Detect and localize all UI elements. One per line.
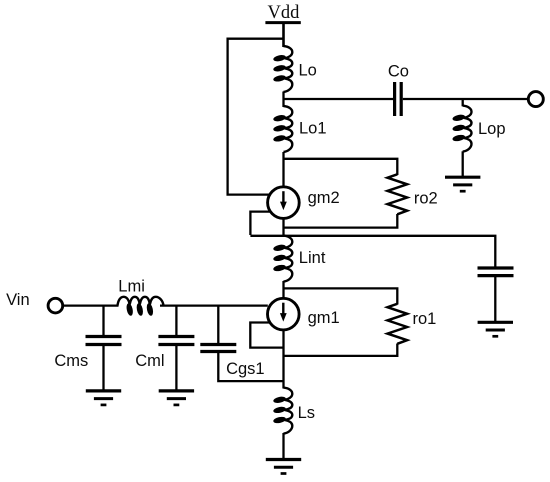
wire gm2 to Lint [282, 219, 284, 237]
input terminal Vin [48, 298, 63, 313]
wire Co to output terminal [403, 98, 529, 100]
wire Lint to gm1 [282, 281, 284, 299]
ground at Cml [159, 391, 194, 405]
svg-text:gm2: gm2 [308, 189, 340, 207]
wire gm1 top rail to ro1 [284, 288, 398, 304]
ground at Lop [445, 177, 480, 191]
power symbol Vdd bar [265, 21, 300, 24]
resistor ro1 [388, 304, 408, 344]
inductor Lo [273, 46, 293, 92]
wire ro2 bottom rail [284, 214, 398, 228]
wire node to Cml [175, 306, 177, 335]
svg-text:Cgs1: Cgs1 [226, 360, 265, 378]
wire right capacitor to ground [494, 277, 496, 321]
svg-text:ro2: ro2 [414, 189, 438, 207]
svg-text:Lop: Lop [478, 120, 506, 138]
wire Ls to ground [282, 433, 284, 459]
wire input rail Lmi to gm1 [160, 304, 268, 306]
wire Lo to Lo1 [282, 92, 284, 108]
capacitor Cms [86, 337, 122, 345]
current source gm1 [268, 298, 300, 330]
current source gm2 [268, 187, 300, 219]
ground at Cms [86, 391, 121, 405]
wire node to Cms [102, 306, 104, 335]
wire Lo1 to gm2 [282, 152, 284, 187]
svg-text:Vin: Vin [6, 291, 30, 309]
wire ro1 bottom rail [284, 344, 398, 356]
svg-text:Co: Co [388, 62, 409, 80]
wire Lop to ground [462, 151, 464, 176]
wire gm2 top rail to ro2 [284, 159, 398, 175]
svg-text:Lo: Lo [299, 62, 317, 80]
inductor Lop [452, 106, 472, 152]
inductor Lmi [118, 297, 164, 317]
svg-text:Cms: Cms [54, 352, 88, 370]
wire output node to Co [284, 98, 394, 100]
wire input rail Vin to Lmi [64, 304, 119, 306]
capacitor output right [478, 268, 514, 276]
inductor Lo1 [273, 106, 293, 152]
capacitor Cml [158, 337, 194, 345]
capacitor Cgs1 [200, 345, 236, 352]
inductor Lint [273, 236, 293, 282]
svg-text:ro1: ro1 [413, 310, 437, 328]
svg-text:Lmi: Lmi [118, 278, 145, 296]
wire Cml to ground [175, 346, 177, 390]
wire Cms to ground [102, 346, 104, 390]
svg-text:Lo1: Lo1 [299, 120, 327, 138]
svg-text:Ls: Ls [298, 404, 315, 422]
svg-text:gm1: gm1 [308, 309, 340, 327]
ground at right capacitor [478, 322, 513, 336]
svg-text:Vdd: Vdd [267, 3, 300, 23]
svg-text:Lint: Lint [299, 249, 326, 267]
inductor Ls [273, 388, 293, 434]
wire left branch Vdd node to gm2 input [228, 39, 284, 195]
wire output node to Lop [462, 99, 464, 106]
resistor ro2 [388, 174, 408, 214]
output terminal [528, 92, 543, 107]
wire node to Cgs1 [217, 306, 219, 344]
wire gm2 feedback bracket [250, 212, 269, 235]
svg-text:Cml: Cml [135, 352, 164, 370]
wire Vdd to Lo [282, 24, 285, 47]
capacitor Co [395, 82, 402, 116]
ground at Ls [266, 460, 301, 474]
wire gm1 feedback bracket [250, 323, 283, 348]
wire gm2 source node to right capacitor [250, 236, 495, 267]
wire Cgs1 to gm1 source [218, 353, 283, 381]
wire gm1 to Ls [282, 330, 284, 389]
